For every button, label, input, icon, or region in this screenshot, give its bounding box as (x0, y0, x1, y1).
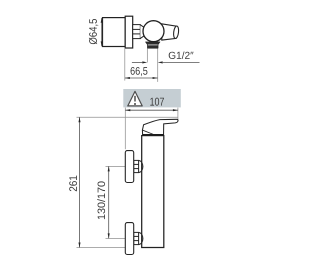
dimension 261 line with arrows (79, 117, 81, 247)
extension line wall face (124, 108, 126, 150)
top view: connection nut (133, 25, 141, 39)
G1/2 leader right arrow (163, 61, 200, 63)
extension line plate front (124, 49, 126, 81)
dimension 130/170 line with arrows (108, 166, 110, 238)
top view: nut-to-body wedge (140, 25, 145, 39)
top view: wall escutcheon plate (103, 18, 126, 47)
G1/2 leader left arrow (132, 61, 142, 63)
extension line upper union center (106, 165, 126, 167)
label 107 (150, 98, 164, 106)
top view: valve body circle (143, 21, 164, 42)
dimension 66,5 line with arrows (125, 77, 158, 79)
top view: lever handle frustum (162, 24, 177, 40)
label G1/2" (169, 51, 194, 59)
warning triangle (128, 91, 142, 106)
front view: upper union nut (134, 160, 143, 172)
dimension O64,5 line with arrows (101, 18, 103, 46)
label 66,5 (131, 67, 148, 76)
extension line mixer top (77, 116, 178, 118)
extension line outlet left (146, 49, 148, 63)
front view: lower escutcheon (125, 223, 133, 255)
front view: lever handle (142, 119, 178, 134)
top view: lever handle end cap (173, 26, 179, 39)
front view: cartridge cap top line (142, 134, 163, 136)
front view: lever underside shadow edge (142, 130, 153, 134)
extension line lower union center (106, 237, 126, 239)
extension line lever tip (177, 108, 179, 120)
top view: valve body block (125, 16, 133, 48)
extension line mixer bottom (77, 247, 126, 249)
label 261 (69, 176, 77, 192)
dimension 107 line with arrows (125, 109, 178, 111)
label 130/170 (97, 181, 105, 219)
warning exclamation mark (134, 96, 136, 102)
extension line outlet right (157, 49, 159, 82)
front view: upper escutcheon (125, 151, 133, 183)
front view: body column (142, 136, 164, 248)
label O64,5 (89, 19, 98, 44)
warning info bar (123, 89, 181, 107)
front view: lower union nut (134, 232, 143, 244)
top view: outlet fitting G1/2 (dark knurled) (145, 42, 160, 48)
